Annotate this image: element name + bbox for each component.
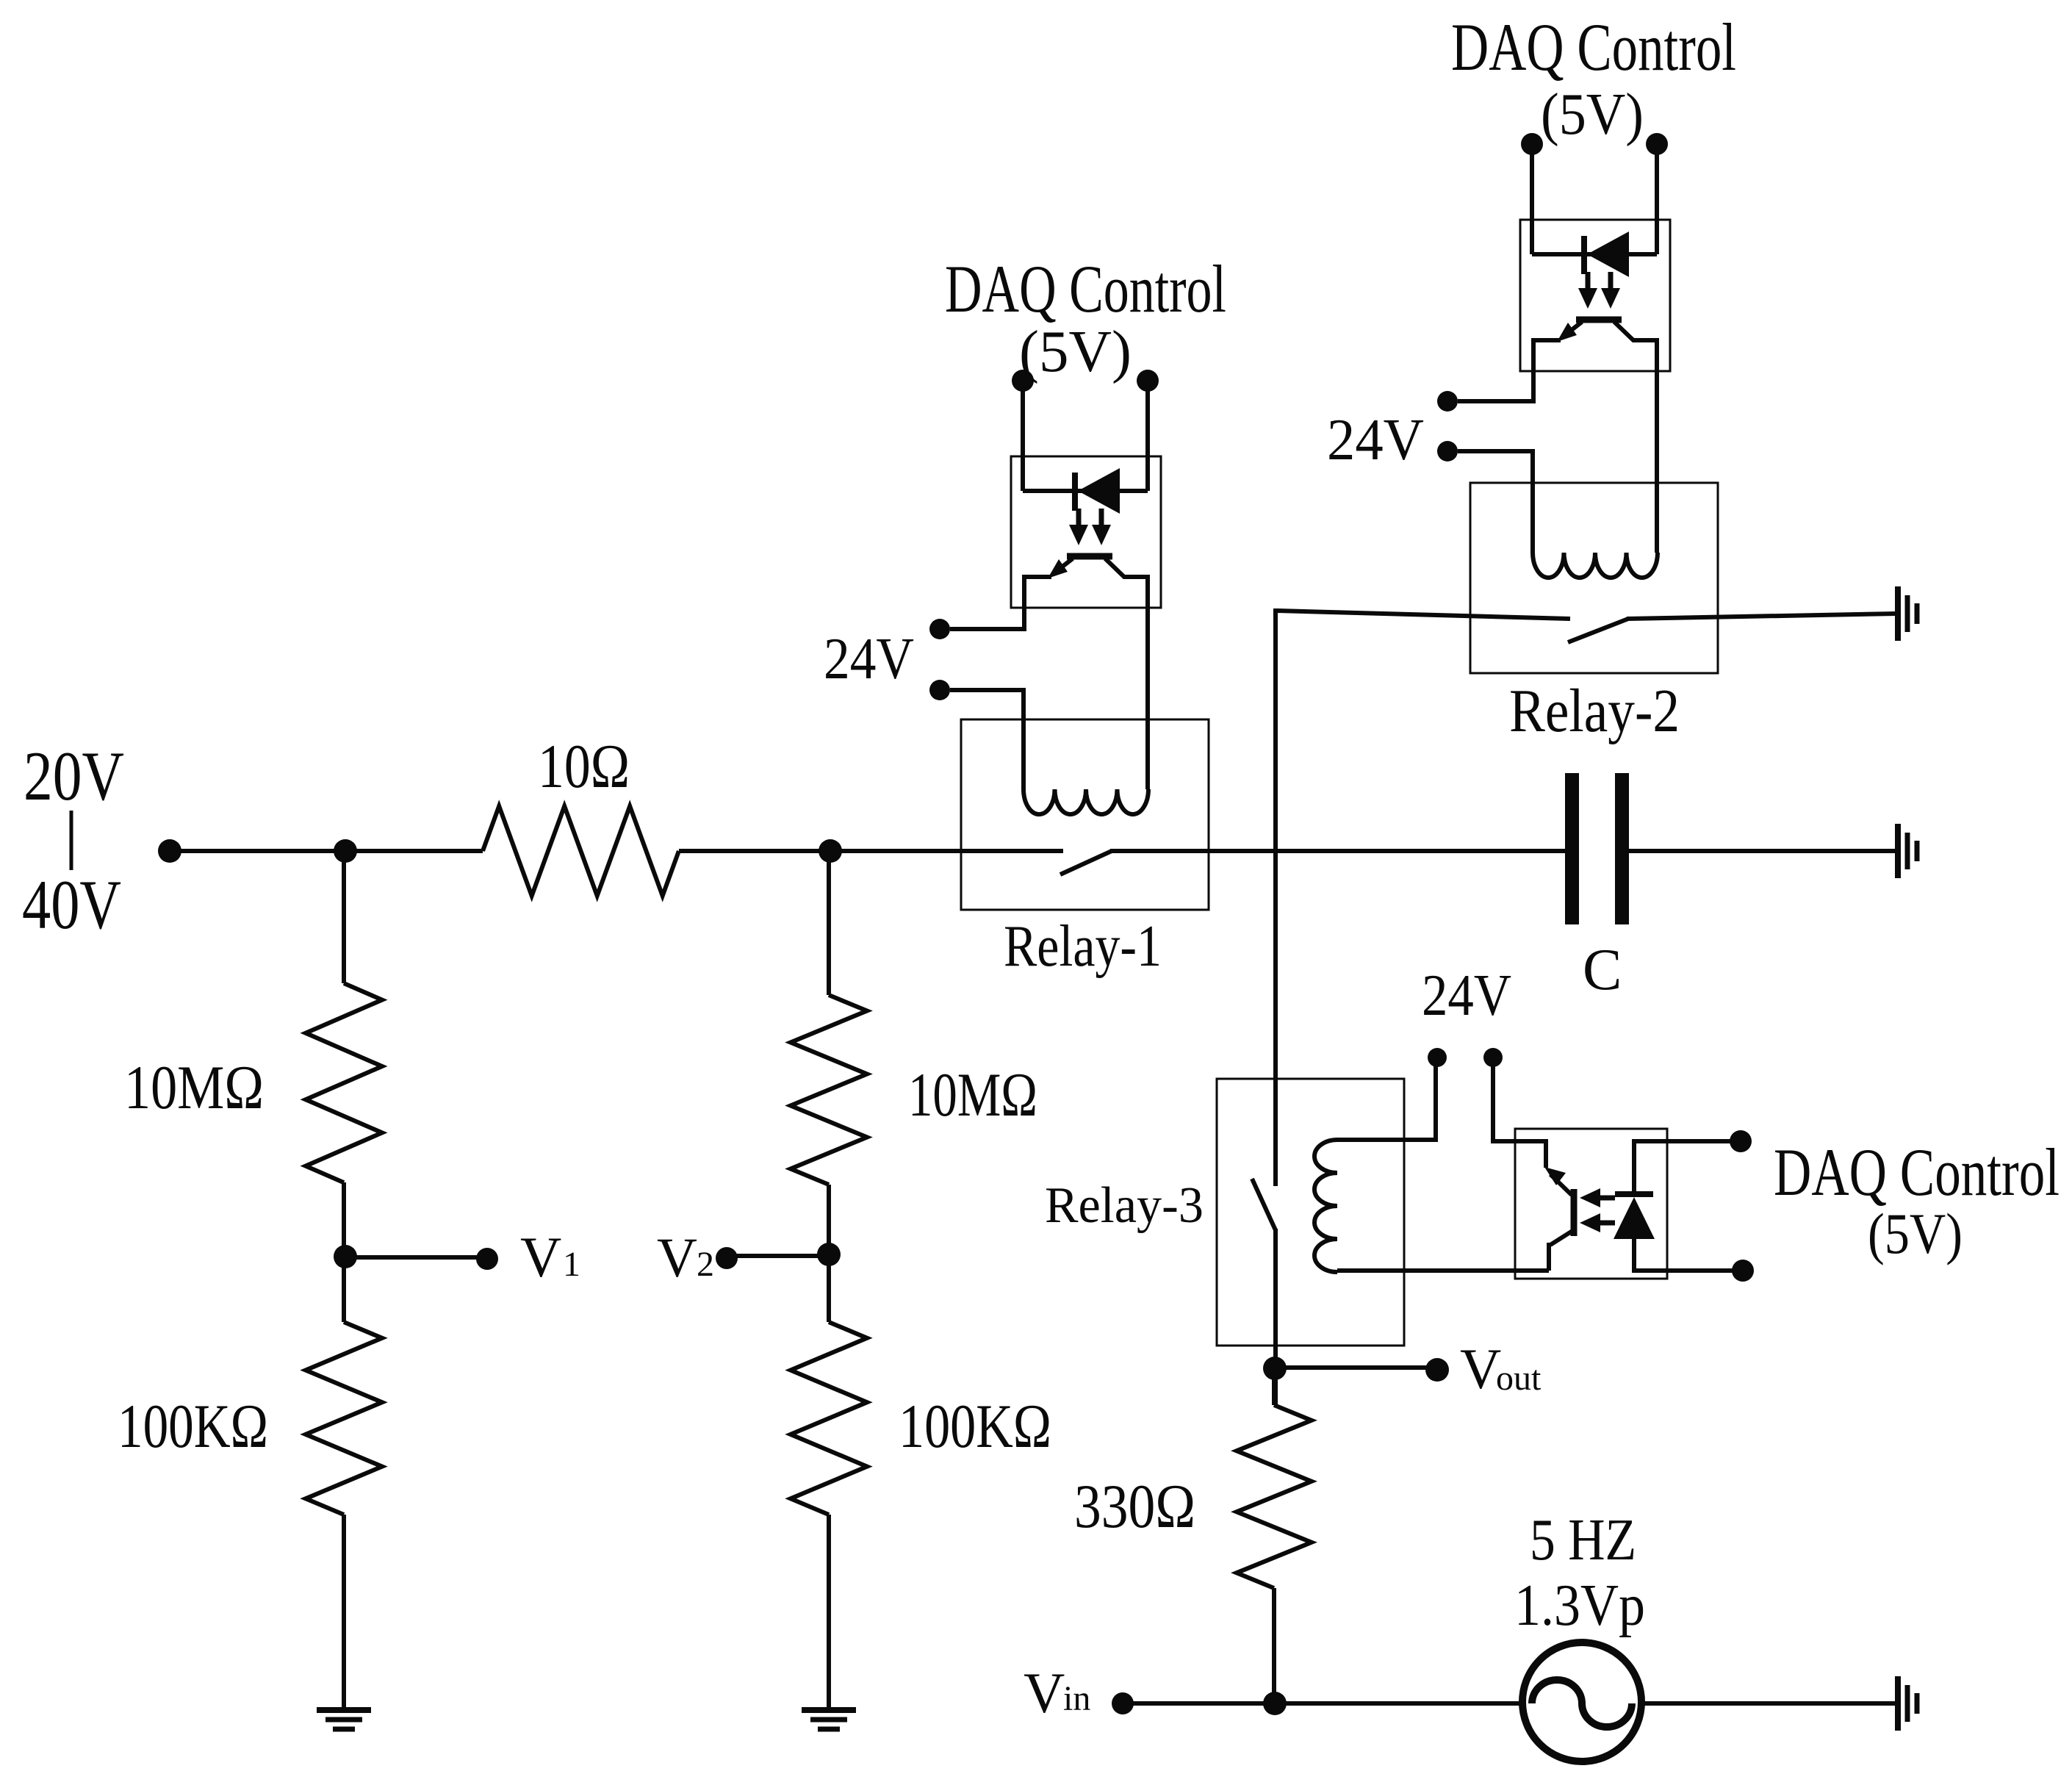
svg-text:(5V): (5V) — [1541, 82, 1644, 147]
svg-text:1: 1 — [563, 1245, 580, 1284]
svg-text:24V: 24V — [1422, 963, 1511, 1028]
svg-text:DAQ Control: DAQ Control — [1774, 1135, 2060, 1210]
label: 24V relay R1 — [824, 627, 914, 692]
wire: bottom rail right of AC source — [1641, 1701, 1896, 1706]
optocoupler U3 (mirrored) — [1515, 1129, 1733, 1279]
svg-text:Relay-3: Relay-3 — [1045, 1177, 1204, 1234]
svg-text:Relay-1: Relay-1 — [1004, 914, 1162, 979]
switch SW2 blade (Relay-2) — [1568, 619, 1628, 642]
label: 100KΩ right — [899, 1392, 1051, 1461]
relay R3 coil (vertical) — [1314, 1140, 1337, 1272]
label: Relay-2 — [1509, 677, 1680, 745]
capacitor C right plate — [1615, 773, 1629, 924]
svg-text:V: V — [1460, 1337, 1501, 1401]
svg-text:V: V — [520, 1225, 561, 1289]
label: 100KΩ left — [118, 1392, 268, 1461]
label: Relay-3 — [1045, 1177, 1204, 1234]
svg-text:10MΩ: 10MΩ — [908, 1060, 1037, 1129]
label: DAQ Control (opto U3) — [1774, 1135, 2060, 1210]
svg-text:5 HZ: 5 HZ — [1530, 1508, 1636, 1573]
wire: main 20-40V bus left segment — [170, 849, 483, 853]
node: 24V dot1 (R2) — [1437, 391, 1458, 412]
label: 10MΩ right — [908, 1060, 1037, 1129]
node: V2 junction dot — [817, 1243, 841, 1266]
ground: AC source — [1898, 1676, 1917, 1731]
optocoupler U1 (DAQ control input) — [1011, 370, 1161, 789]
svg-text:Relay-2: Relay-2 — [1509, 677, 1680, 745]
svg-text:20V: 20V — [24, 737, 124, 815]
svg-text:2: 2 — [697, 1245, 714, 1284]
wire: left divider bottom lead — [342, 1515, 346, 1710]
node: junction above left divider — [334, 839, 357, 863]
svg-text:40V: 40V — [22, 866, 121, 944]
node: V1 junction dot — [334, 1245, 357, 1268]
wire: right divider middle lead — [827, 1185, 831, 1322]
node: 24V dot 2 (R3) — [1483, 1048, 1503, 1067]
node: 24V dot1 (R1) — [929, 619, 950, 639]
label: DAQ Control (opto U2) — [1451, 10, 1736, 85]
wire: 330Ω to bottom rail — [1272, 1588, 1276, 1703]
svg-text:out: out — [1496, 1359, 1542, 1398]
node: Vout terminal dot — [1425, 1358, 1449, 1382]
label: (5V) opto U3 — [1868, 1202, 1963, 1265]
wire: bar between 20V and 40V — [70, 811, 73, 870]
svg-text:100KΩ: 100KΩ — [899, 1392, 1051, 1461]
label: 24V relay R2 — [1327, 408, 1424, 473]
node: V1 terminal dot — [476, 1248, 498, 1270]
label: Relay-1 — [1004, 914, 1162, 979]
svg-text:1.3Vp: 1.3Vp — [1514, 1573, 1645, 1638]
svg-text:(5V): (5V) — [1019, 320, 1132, 384]
svg-text:V: V — [657, 1227, 697, 1289]
label: V1 — [520, 1225, 580, 1289]
AC source V1 (5 HZ 1.3Vp) circle — [1522, 1642, 1641, 1761]
wire: R3 coil bottom lead to opto U3 collector — [1337, 1268, 1549, 1273]
svg-text:C: C — [1583, 938, 1622, 1002]
label: C — [1583, 938, 1622, 1002]
capacitor C left plate — [1565, 773, 1579, 924]
ground: Relay-2 switch — [1898, 586, 1917, 641]
node: DAQ top dot (U3) — [1730, 1130, 1752, 1152]
svg-text:10MΩ: 10MΩ — [124, 1053, 264, 1122]
resistor 10MΩ (right divider) — [791, 995, 867, 1185]
node: DAQ bottom dot (U3) — [1732, 1260, 1754, 1282]
wire: bus from 10Ω to Relay-1 switch — [679, 849, 1063, 853]
svg-text:DAQ Control: DAQ Control — [945, 251, 1226, 326]
wire: 24V dot2 to opto U3 emitter — [1493, 1061, 1546, 1168]
svg-text:330Ω: 330Ω — [1074, 1472, 1195, 1541]
node: junction above right divider — [819, 839, 842, 863]
svg-text:24V: 24V — [824, 627, 914, 692]
label: 40V — [22, 866, 121, 944]
resistor 100KΩ (right divider) — [791, 1322, 867, 1515]
label: Vout — [1460, 1337, 1542, 1401]
node: V2 terminal dot — [716, 1247, 738, 1269]
wire: Vout tap — [1275, 1365, 1428, 1370]
wire: 24V dot2 to relay R1 coil — [950, 690, 1024, 789]
node: 24V dot2 (R1) — [929, 680, 950, 700]
wire: R3 coil top lead to 24V dot — [1337, 1061, 1436, 1140]
wire: 24V dot2 to relay R2 coil — [1458, 451, 1533, 553]
node: Vout junction dot — [1263, 1357, 1287, 1380]
svg-text:in: in — [1063, 1679, 1090, 1718]
node: bottom rail junction dot — [1263, 1692, 1287, 1715]
label: 10MΩ left — [124, 1053, 264, 1122]
node: 24V dot2 (R2) — [1437, 441, 1458, 461]
wire: V2 tap — [737, 1254, 829, 1258]
label: Vin — [1024, 1661, 1090, 1725]
ground: left divider — [317, 1710, 371, 1729]
wire: bottom rail left of AC source — [1122, 1701, 1523, 1706]
wire: Vout junction to 330Ω — [1272, 1368, 1276, 1405]
resistor 10Ω (series) — [483, 806, 679, 896]
switch SW1 blade (Relay-1) — [1060, 851, 1112, 874]
wire: 24V dot1 to opto U1 emitter — [950, 608, 1024, 629]
label: 24V relay R3 — [1422, 963, 1511, 1028]
label: 20V — [24, 737, 124, 815]
label: 1.3Vp — [1514, 1573, 1645, 1638]
svg-text:10Ω: 10Ω — [538, 732, 630, 801]
wire: 24V dot1 to opto U2 emitter — [1458, 372, 1533, 401]
wire: right divider top lead — [827, 851, 831, 995]
svg-text:100KΩ: 100KΩ — [118, 1392, 268, 1461]
svg-text:24V: 24V — [1327, 408, 1424, 473]
wire: bus from Relay-1 switch to capacitor — [1110, 849, 1565, 853]
node: source terminal dot — [158, 839, 181, 863]
svg-text:DAQ Control: DAQ Control — [1451, 10, 1736, 85]
optocoupler U2 (DAQ control input) — [1520, 133, 1670, 553]
wire: Relay-2 switch to ground — [1627, 614, 1896, 619]
relay R3 box — [1217, 1079, 1404, 1346]
wire: left divider top lead — [342, 851, 346, 983]
svg-text:V: V — [1024, 1661, 1065, 1725]
ground: capacitor — [1898, 824, 1917, 878]
label: DAQ Control (opto U1) — [945, 251, 1226, 326]
wire: V1 tap — [345, 1255, 478, 1260]
label: V2 — [657, 1227, 714, 1289]
resistor 100KΩ (left divider) — [306, 1322, 382, 1515]
label: 5 HZ — [1530, 1508, 1636, 1573]
wire: Relay-2 switch left feed with corner — [1276, 611, 1570, 1186]
label: (5V) opto U2 — [1541, 82, 1644, 147]
svg-text:(5V): (5V) — [1868, 1202, 1963, 1265]
relay R1 box and coil — [961, 719, 1209, 910]
wire: capacitor to ground — [1629, 849, 1896, 853]
wire: left divider middle lead — [342, 1182, 346, 1322]
label: 10Ω — [538, 732, 630, 801]
wire: Relay-3 switch bottom to Vout junction — [1273, 1229, 1278, 1405]
label: (5V) opto U1 — [1019, 320, 1132, 384]
node: 24V dot 1 (R3) — [1428, 1048, 1447, 1067]
resistor 10MΩ (left divider) — [306, 983, 382, 1182]
wire: right divider bottom lead — [827, 1515, 831, 1710]
relay R2 box and coil — [1470, 483, 1718, 673]
label: 330Ω — [1074, 1472, 1195, 1541]
node: Vin terminal dot — [1112, 1692, 1134, 1714]
switch SW3 blade (Relay-3) — [1252, 1179, 1276, 1230]
ground: right divider — [802, 1710, 856, 1729]
resistor 330Ω — [1237, 1405, 1312, 1588]
